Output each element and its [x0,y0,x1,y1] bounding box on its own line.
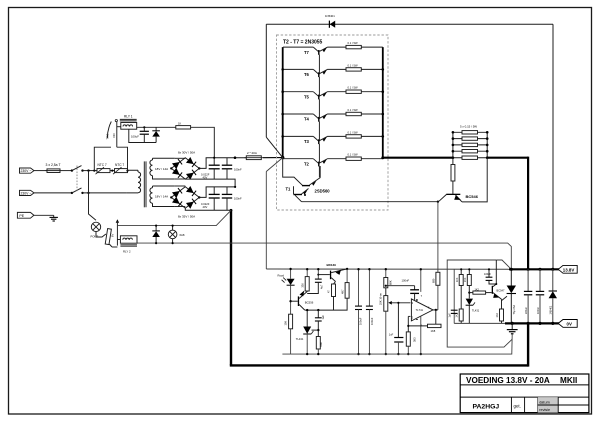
svg-text:PA2HGJ: PA2HGJ [473,403,500,410]
thyristor crowbar [507,269,516,323]
diode 1N5401 (output) [549,269,557,323]
wire OVP slope to rail [496,260,511,269]
resistor OVP divider 2 [464,268,471,298]
capacitor 220uF (output) [524,269,532,323]
capacitor 4u7 [307,268,324,294]
node base bus T6 [281,68,284,71]
capacitor 1uF (ref) [315,310,325,336]
svg-text:100nF: 100nF [484,273,492,276]
transistor T6 [283,63,383,77]
capacitor 1uF (ref filter) [389,302,404,356]
node emitter rail bottom [381,156,384,159]
svg-text:6A8: 6A8 [180,233,185,237]
wire gate node [501,299,503,309]
svg-text:3 x 2,5a T: 3 x 2,5a T [46,163,61,167]
wire T5 collector drop [318,99,320,119]
node T1 base / limiter [437,201,439,203]
capacitor C2 100nF [222,158,242,179]
wire minus bus vertical [230,210,232,365]
wire [83,170,98,172]
capacitor 100uF (relay) [131,127,149,142]
svg-text:100uF: 100uF [131,135,139,139]
wire BC556 collector rail [305,309,337,311]
wire top loop left vertical [265,24,267,137]
op-amp TL741 [411,294,433,327]
svg-text:BD139: BD139 [327,263,337,267]
transformer secondary 1 (18V/14A) [150,158,175,179]
svg-text:1K: 1K [178,122,181,126]
transformer TR1 primary [83,170,141,193]
transistor BD139 [318,263,347,282]
driver T1 2SD560 (darlington) [283,158,331,202]
svg-text:1K8: 1K8 [431,329,436,333]
emitter rail (right thick) [382,47,384,158]
svg-text:T6: T6 [304,72,310,77]
svg-text:POUT: POUT [91,235,99,239]
resistor 1K8 (feedback) [407,324,441,333]
wire B1 minus rail [185,179,235,187]
wire thick sense to output drop [487,157,528,159]
wire diagonal into junction [266,137,282,157]
lamp 6A8 [168,225,185,245]
wire B2 minus rail [185,208,231,210]
svg-text:Thy 2SA: Thy 2SA [513,305,516,315]
svg-text:40V: 40V [203,176,208,180]
svg-text:1N5401: 1N5401 [325,14,335,18]
wire output [433,309,438,311]
node emitter rail T5 [382,90,385,93]
svg-text:TL431: TL431 [296,337,304,341]
resistor 3K3 (fb divider) [406,332,416,355]
sense rail left [452,132,454,158]
transistor BC546 (current limiter) [439,158,487,202]
wire lamp feed [89,171,97,221]
node base bus T5 [281,90,284,93]
wire thick output vertical [527,157,529,270]
wire indicator rail top [117,210,231,225]
svg-text:Rood: Rood [278,273,285,277]
node NTC mid [111,170,113,172]
resistor sense 5 [452,156,489,159]
wire inner box left [453,269,455,323]
lamp POUT [91,222,101,238]
svg-text:100nF: 100nF [234,197,242,201]
relay coil RLY1 [117,114,137,129]
wire to raw DC [191,127,215,157]
svg-text:T4: T4 [304,117,310,122]
node emitter rail T3 [382,135,385,138]
node LED / BC556 base [289,300,291,302]
node base bus T3 [281,135,284,138]
wire thick emitter rail to sense block [383,157,453,159]
potentiometer 25K 10-turn [379,292,411,355]
wire B2 plus output [199,187,235,198]
svg-text:220uF: 220uF [525,306,528,314]
svg-text:18V / 14A: 18V / 14A [155,167,168,171]
svg-text:BC547: BC547 [497,289,505,293]
node ref divider [317,329,319,331]
transistor BC547 (OVP) [492,260,505,299]
svg-text:6V: 6V [111,234,115,237]
wire minus bus bottom [230,364,528,366]
terminal PE [17,212,34,218]
svg-text:5 x 0,15 / 5W: 5 x 0,15 / 5W [460,125,477,129]
node relay tap [213,157,215,159]
svg-text:8x 35V / 50A: 8x 35V / 50A [178,215,195,219]
wire relay supply top [137,126,176,128]
svg-text:2SD560: 2SD560 [315,188,331,193]
svg-text:10K: 10K [456,277,459,282]
svg-text:230V ~: 230V ~ [21,169,32,173]
resistor 680 (drive) [431,272,440,310]
capacitor 100nF (control) [366,268,374,355]
svg-text:RLY 1: RLY 1 [124,114,133,118]
wire [34,214,54,216]
svg-text:PE: PE [19,214,24,218]
wire T4 collector drop [318,122,320,142]
svg-text:MKII: MKII [560,376,577,385]
svg-text:68K: 68K [389,280,393,285]
svg-text:1K2: 1K2 [456,312,459,317]
wire control box left edge [266,158,282,172]
resistor relay series [176,122,191,130]
capacitor 100uF (control) [355,268,363,355]
capacitor 100nF (comp) [386,278,419,300]
svg-text:100nF: 100nF [537,306,540,314]
svg-text:1N5401: 1N5401 [550,305,553,314]
svg-text:8x 30V / 50A: 8x 30V / 50A [178,151,195,155]
wire control rail (+13.8 sense) [266,268,511,270]
capacitor 100nF (OVP) [484,268,496,284]
sense rail right [486,132,488,158]
wire feedback drop [435,310,437,326]
NTC R inrush 2 [113,163,128,174]
transformer core [144,161,146,207]
svg-text:NTC 7: NTC 7 [115,163,124,167]
resistor 10K (LED chain) [283,314,292,354]
LED Rood [278,268,295,314]
svg-text:4u7: 4u7 [320,284,324,289]
wire top loop right vertical [552,24,554,269]
wire T2 collector drop to T1 [318,166,320,177]
svg-text:25K 10-trn: 25K 10-trn [379,292,383,305]
ground (output common) [507,323,518,333]
NTC R inrush 1 [96,163,111,174]
terminal 230V~ line 1 [20,168,35,173]
transformer secondary 2 (18V/14A) [150,186,175,207]
resistor 4K7 [337,269,349,310]
main junction node [281,156,284,159]
resistor lamp series (zigzag) [96,229,117,247]
wire +13.8V rail (thick) [509,268,578,270]
svg-text:RLY 2: RLY 2 [123,249,131,253]
node L after switch [87,169,89,171]
svg-text:230V ~: 230V ~ [21,192,32,196]
base bus (left thick) [282,47,284,158]
switch S1 pole 2 [71,188,84,194]
wire op-amp V+ pin7 [420,269,422,292]
capacitor C1 0.022F 40V [201,158,220,180]
terminal 230V~ line 2 [20,190,35,195]
fuse F1 3x2,5A T [46,163,62,172]
node N after switch [87,192,89,194]
svg-text:get.: get. [514,404,521,409]
resistor 1K2 (gate) [496,309,504,323]
node OVP base [468,292,470,294]
relay coil RLY2 [117,236,137,254]
svg-text:1uF: 1uF [389,333,394,337]
resistor 1K2 (left leg) [456,309,464,323]
node minus bus top [230,209,233,212]
wire ref to TL431 [312,329,319,331]
relay contact RLY1 (NTC bypass) [106,120,118,148]
node ground rail joints [306,353,308,355]
node relay RC [143,126,145,128]
svg-text:TL431: TL431 [472,308,480,312]
wire [34,170,47,172]
svg-text:TL741: TL741 [416,308,424,312]
transistor BC556 [291,291,314,311]
svg-text:680: 680 [319,342,323,347]
svg-text:4K7: 4K7 [340,289,344,294]
ground PE symbol [50,215,58,221]
resistor base bleed (under sense rail) [451,158,455,194]
svg-text:T5: T5 [304,94,310,99]
svg-text:1uF: 1uF [321,315,325,320]
transistor T2 [283,153,383,167]
wire T7 collector drop [318,55,320,75]
resistor 68K (divider top) [384,268,393,288]
svg-text:330: 330 [300,283,304,288]
svg-text:T2: T2 [304,161,310,166]
TL431 shunt ref 2 [466,298,480,323]
wire [34,192,72,194]
diode indicator [152,225,160,245]
wire minus bus riser to 0V [527,323,529,366]
wire T3 collector drop [318,144,320,164]
wire inverting input [408,315,410,317]
svg-text:BC546: BC546 [466,194,479,199]
svg-text:T2 - T7 = 2N3055: T2 - T7 = 2N3055 [283,40,323,46]
transistor T7 [283,41,383,55]
svg-text:1K2: 1K2 [496,312,499,317]
svg-text:revisie: revisie [539,408,550,412]
svg-text:18V / 14A: 18V / 14A [155,195,168,199]
bridge rectifier B2 [170,186,200,209]
svg-text:100nF: 100nF [234,167,242,171]
node series link [234,186,236,188]
capacitor C3 0.022F 40V [201,187,220,210]
wire gate to thyristor [502,296,508,300]
resistor sense 2 [452,137,489,140]
resistor 330 (BC556 emitter) [300,268,309,292]
wire B1 plus output [199,158,246,169]
resistor OVP divider 1 [456,268,463,309]
diode (relay flyback) [152,127,160,142]
switch link (dashed) [76,166,78,192]
node collector rail [317,309,319,311]
svg-text:T7: T7 [304,50,310,55]
wire control ground rail [282,334,512,354]
resistor 680 (ref) [316,337,323,355]
node NTC right [126,170,128,172]
node rail joints [510,268,513,271]
svg-text:0V: 0V [567,321,572,326]
wire RLY2 sense (long horizontal) [137,243,511,269]
capacitor 100nF (output) [536,269,544,323]
capacitor 1uF (OVP, on left edge) [449,310,458,317]
bridge rectifier B1 [170,157,200,180]
svg-text:40V: 40V [203,205,208,209]
terminal 13.8V [558,265,577,273]
node NTC left [93,170,95,172]
svg-text:TRC: TRC [106,134,110,140]
node emitter rail T6 [382,68,385,71]
svg-text:datum: datum [539,401,550,405]
svg-text:100nF: 100nF [370,317,374,325]
wire [62,170,72,172]
svg-text:NTC 7: NTC 7 [98,163,107,167]
svg-text:100uF: 100uF [359,317,363,325]
dashed enclosure T1-T7 [277,35,389,210]
svg-text:2 * 20A: 2 * 20A [247,151,257,155]
wire NTC bypass right riser [117,147,128,170]
node 0V joints [511,322,514,325]
svg-text:13.8V: 13.8V [563,267,575,272]
transistor T4 [283,108,383,122]
wire T6 collector drop [318,77,320,97]
resistor 1K2 (OVP base) [469,288,491,294]
wire NTC bypass left riser [94,147,111,170]
relay contact RLY2 [116,219,119,245]
switch S1 pole 1 [71,166,84,172]
resistor sense 4 [452,150,489,153]
svg-text:3K3: 3K3 [412,337,416,342]
svg-text:680: 680 [431,278,435,283]
wire OVP loop (outer) [447,260,512,347]
wire T1 base line to op-amp drive [302,201,438,203]
wire drive from op-amp (vertical) [437,202,439,273]
svg-text:10K: 10K [283,321,287,326]
TL431 shunt ref 1 [296,309,314,354]
fuse F2 2x20A [245,151,264,160]
svg-text:T1: T1 [286,186,292,191]
node raw plus at fuse [234,156,237,159]
wire relay return [129,129,156,142]
svg-text:1uF: 1uF [449,313,452,318]
node base bus T4 [281,113,284,116]
node emitter rail T4 [382,113,385,116]
wire fuse to main junction [263,157,283,159]
capacitor C4 100nF [222,187,242,210]
transistor T3 [283,130,383,144]
terminal 0V [558,320,577,328]
transistor T5 [283,86,383,100]
node divider [385,285,387,287]
resistor 47 (BD139 collector) [327,282,336,311]
wire divider link [385,288,387,296]
svg-text:BC556: BC556 [305,301,314,305]
wire top loop horizontal [266,23,553,25]
svg-text:15K: 15K [464,277,467,282]
node rail BD139 emitter [346,268,348,270]
resistor sense 1 [452,131,489,134]
wire 0V rail [454,322,507,324]
svg-text:VOEDING 13.8V - 20A: VOEDING 13.8V - 20A [466,376,550,385]
diode 1N5401 (top) [325,14,335,28]
resistor sense 3 [452,143,489,146]
wire [110,170,115,172]
wire op-amp V- pin4 [420,316,422,354]
svg-text:T3: T3 [304,139,310,144]
svg-text:100nF: 100nF [402,278,410,282]
